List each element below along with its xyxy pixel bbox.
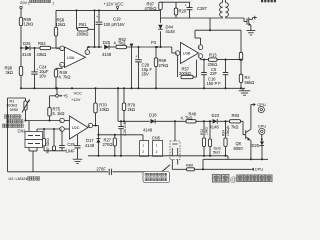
resistor R93 bbox=[227, 113, 241, 129]
svg-text:D25: D25 bbox=[103, 40, 111, 45]
svg-text:+5: +5 bbox=[63, 93, 68, 98]
svg-text:4. 7kΩ: 4. 7kΩ bbox=[114, 41, 126, 46]
resistor R58 bbox=[54, 17, 65, 36]
wire bbox=[8, 98, 26, 172]
svg-text:22F: 22F bbox=[210, 71, 218, 76]
resistor R69 bbox=[154, 47, 168, 88]
resistor R94 bbox=[221, 121, 230, 156]
pin 5 of U3B bbox=[198, 45, 203, 50]
connector CN5 bbox=[140, 135, 163, 157]
svg-text:LM324: LM324 bbox=[16, 176, 29, 181]
ground bbox=[246, 31, 255, 35]
svg-text:10V: 10V bbox=[39, 74, 47, 79]
svg-text:P3: P3 bbox=[151, 40, 157, 45]
wire bbox=[55, 10, 57, 27]
svg-text:2: 2 bbox=[156, 150, 158, 154]
svg-text:+: + bbox=[135, 55, 137, 59]
wire bbox=[196, 120, 212, 122]
svg-text:4148: 4148 bbox=[85, 143, 95, 148]
wire bbox=[113, 171, 150, 173]
wire bbox=[203, 59, 241, 61]
label R20 bbox=[179, 8, 187, 13]
resistor R20 bbox=[174, 2, 177, 18]
label CN1 bbox=[18, 129, 27, 134]
wire bbox=[195, 29, 241, 31]
svg-text:CPU: CPU bbox=[257, 102, 266, 107]
diode D25 bbox=[102, 40, 112, 57]
resistor R80 bbox=[172, 162, 194, 170]
op-amp U3A bbox=[65, 47, 86, 68]
svg-text:R63: R63 bbox=[38, 41, 46, 46]
wire bbox=[76, 10, 78, 29]
svg-text:27kΩ: 27kΩ bbox=[159, 63, 169, 68]
svg-text:10kΩ: 10kΩ bbox=[205, 127, 209, 135]
resistor R48 bbox=[181, 111, 197, 122]
resistor R70 bbox=[94, 88, 109, 125]
svg-text:10kΩ: 10kΩ bbox=[99, 107, 109, 112]
resistor R62 bbox=[114, 37, 127, 49]
svg-text:200kΩ: 200kΩ bbox=[77, 32, 89, 37]
svg-text:3kΩ: 3kΩ bbox=[6, 70, 13, 75]
resistor R63 bbox=[37, 41, 51, 57]
svg-text:U2:: U2: bbox=[9, 176, 15, 181]
connector P1 arrow bbox=[130, 44, 134, 90]
wire bbox=[20, 9, 22, 18]
svg-text:VCC: VCC bbox=[74, 90, 83, 95]
wire bbox=[218, 120, 230, 122]
svg-text:C287: C287 bbox=[197, 6, 208, 11]
wire bbox=[201, 58, 209, 59]
wire bbox=[99, 46, 102, 48]
node +12V VCC rail bbox=[56, 1, 161, 11]
wire bbox=[8, 171, 109, 173]
node VCC rail bbox=[20, 87, 245, 89]
resistor R99 bbox=[19, 17, 33, 26]
resistor R61 bbox=[77, 22, 89, 37]
resistor R3 bbox=[239, 52, 242, 60]
resistor R4 bbox=[239, 74, 254, 85]
wire bbox=[97, 126, 143, 136]
svg-text:R80: R80 bbox=[186, 162, 194, 167]
svg-text:@: @ bbox=[230, 177, 237, 184]
svg-text:12kΩ: 12kΩ bbox=[56, 22, 66, 27]
connector to CPU 2 bbox=[258, 123, 267, 141]
svg-text:R94: R94 bbox=[221, 130, 225, 136]
pin 1 of U3A bbox=[85, 50, 90, 55]
wire bbox=[209, 18, 211, 30]
svg-text:270F: 270F bbox=[97, 167, 107, 172]
svg-text:4148: 4148 bbox=[166, 29, 176, 34]
svg-text:CPU: CPU bbox=[258, 123, 267, 128]
svg-text:100 pF/16V: 100 pF/16V bbox=[104, 22, 125, 27]
svg-text:104F: 104F bbox=[66, 148, 76, 153]
wire bbox=[227, 156, 229, 160]
dashed box gate driver bbox=[170, 121, 180, 159]
capacitor C5 bbox=[201, 67, 217, 89]
wire bbox=[48, 116, 50, 122]
label box gate voltage bbox=[143, 165, 170, 183]
diode D20 bbox=[252, 141, 265, 159]
wire bbox=[20, 26, 22, 50]
svg-text:CN5: CN5 bbox=[152, 136, 161, 141]
svg-text:20V (: 20V ( bbox=[20, 0, 30, 5]
svg-text:5. 1kΩ: 5. 1kΩ bbox=[53, 111, 65, 116]
wire bbox=[109, 46, 116, 48]
wire bbox=[156, 120, 186, 122]
capacitor C26 bbox=[118, 121, 127, 156]
svg-text:12kΩ: 12kΩ bbox=[24, 22, 34, 27]
wire bbox=[203, 60, 205, 73]
pin 10 of U2C bbox=[59, 127, 69, 132]
resistor R-small bbox=[53, 129, 56, 151]
wire bbox=[202, 159, 204, 170]
wire bbox=[161, 17, 223, 19]
svg-text:4148: 4148 bbox=[102, 52, 112, 57]
resistor R75 bbox=[48, 106, 65, 116]
op-amp U3B bbox=[181, 43, 199, 64]
label VCC +12V bbox=[71, 90, 82, 102]
wire bbox=[87, 46, 99, 50]
diode D23 bbox=[210, 113, 220, 129]
pin 8 of U2C bbox=[88, 123, 93, 128]
resistor Du6 bbox=[208, 121, 220, 156]
wire bbox=[30, 47, 40, 49]
wire bbox=[51, 47, 60, 49]
diode D26 bbox=[22, 41, 32, 57]
wire bbox=[240, 83, 242, 89]
transformer T1 bbox=[220, 0, 229, 18]
resistor R13 bbox=[208, 52, 218, 67]
svg-text:R61: R61 bbox=[79, 22, 87, 27]
ground bbox=[73, 159, 83, 163]
wire bbox=[56, 36, 60, 48]
svg-text:D18: D18 bbox=[149, 113, 157, 118]
svg-text:C26 104F: C26 104F bbox=[123, 121, 127, 136]
svg-text:U2C: U2C bbox=[72, 125, 80, 130]
svg-text:C25: C25 bbox=[67, 142, 75, 147]
svg-text:U3A: U3A bbox=[67, 55, 75, 60]
label sensor bbox=[3, 115, 24, 128]
wire bbox=[225, 60, 227, 73]
svg-text:4. 7kΩ: 4. 7kΩ bbox=[59, 75, 71, 80]
svg-text:R93: R93 bbox=[232, 113, 240, 118]
diode D18 bbox=[143, 113, 157, 133]
diode D17 bbox=[85, 135, 100, 156]
wire bbox=[93, 124, 99, 126]
wire bbox=[172, 47, 176, 53]
svg-text:3990: 3990 bbox=[10, 107, 19, 112]
wire bbox=[29, 148, 37, 172]
svg-text:4. 7kΩ: 4. 7kΩ bbox=[181, 116, 193, 121]
svg-text:R32: R32 bbox=[200, 129, 204, 135]
wire bbox=[44, 150, 66, 152]
svg-text:R13: R13 bbox=[209, 52, 217, 57]
capacitor C25 bbox=[59, 131, 75, 153]
svg-text:4148: 4148 bbox=[210, 124, 220, 129]
transistor Q-IGBT bbox=[247, 16, 257, 31]
ground bbox=[239, 88, 251, 95]
wire bbox=[127, 46, 172, 48]
top-right cut text bbox=[261, 0, 276, 2]
wire bbox=[160, 10, 162, 23]
wire bbox=[172, 160, 177, 170]
wire bbox=[50, 96, 56, 108]
diode D44 bbox=[158, 24, 175, 34]
resistor R97 bbox=[145, 2, 163, 12]
thermistor R1 bbox=[6, 98, 30, 113]
wire bbox=[24, 110, 26, 122]
svg-text:+12V VCC: +12V VCC bbox=[104, 1, 124, 6]
wire bbox=[240, 60, 242, 74]
svg-text:4148: 4148 bbox=[143, 128, 153, 133]
wire bbox=[26, 120, 60, 122]
op-amp U2C bbox=[70, 116, 89, 139]
resistor R79 bbox=[122, 88, 135, 121]
svg-text:+: + bbox=[185, 3, 187, 7]
wire bbox=[88, 155, 228, 157]
wire bbox=[241, 121, 246, 134]
pin 9 of U2C bbox=[60, 118, 70, 123]
svg-text:D23: D23 bbox=[212, 113, 220, 118]
resistor R57 loop bbox=[178, 55, 197, 78]
connector from CPU bbox=[251, 166, 263, 171]
svg-text:D20: D20 bbox=[252, 143, 260, 148]
svg-text:+: + bbox=[36, 68, 38, 72]
capacitor C28 bbox=[135, 47, 152, 88]
capacitor C287 bbox=[185, 2, 208, 18]
svg-text:5kΩ: 5kΩ bbox=[213, 150, 220, 155]
wire bbox=[195, 168, 252, 170]
svg-text:+12V: +12V bbox=[71, 97, 81, 102]
svg-text:D26: D26 bbox=[23, 41, 31, 46]
capacitor C24 bbox=[31, 48, 49, 88]
svg-text:270Ω: 270Ω bbox=[103, 142, 113, 147]
svg-text:1: 1 bbox=[142, 144, 144, 148]
watermark bbox=[213, 175, 273, 185]
svg-text:2: 2 bbox=[142, 150, 144, 154]
wire bbox=[117, 87, 150, 122]
caption U2 LM324 bbox=[9, 176, 40, 181]
resistor R27 bbox=[103, 134, 117, 156]
capacitor C16 bbox=[207, 73, 229, 89]
svg-text:R20: R20 bbox=[179, 8, 187, 13]
wire bbox=[160, 31, 162, 47]
svg-text:43kΩ: 43kΩ bbox=[37, 52, 47, 57]
wire bbox=[21, 47, 25, 49]
capacitor C29 bypass bbox=[75, 135, 81, 159]
svg-text:10kΩ: 10kΩ bbox=[226, 128, 230, 136]
pin 6 of U3B bbox=[175, 51, 180, 56]
resistor R49 bbox=[54, 67, 70, 88]
svg-text:2kΩ: 2kΩ bbox=[128, 107, 135, 112]
connector to CPU 1 bbox=[251, 102, 266, 113]
node P3 bbox=[151, 40, 158, 48]
svg-text:150 P F: 150 P F bbox=[207, 81, 222, 86]
svg-text:8050: 8050 bbox=[234, 146, 244, 151]
svg-text:470kΩ: 470kΩ bbox=[145, 6, 157, 11]
svg-text:U3B: U3B bbox=[183, 51, 191, 56]
pin 3 of U3A bbox=[60, 62, 65, 67]
pin 7 of U3B bbox=[198, 54, 203, 59]
capacitor 270F bbox=[97, 167, 112, 175]
pin 2 of U3A bbox=[60, 46, 65, 51]
svg-text:200kΩ: 200kΩ bbox=[179, 71, 191, 76]
wire bbox=[88, 10, 96, 48]
wire bbox=[203, 158, 268, 160]
resistor R32 bbox=[200, 121, 209, 156]
capacitor C19 bbox=[96, 10, 125, 48]
svg-text:25V: 25V bbox=[142, 72, 150, 77]
transistor Q8 bbox=[234, 105, 251, 160]
svg-text:1: 1 bbox=[156, 144, 158, 148]
wire bbox=[37, 128, 60, 130]
resistor R87 bbox=[42, 129, 49, 153]
wire bbox=[240, 30, 242, 52]
wire bbox=[226, 18, 247, 22]
wire bbox=[161, 1, 191, 3]
resistor R98 bbox=[5, 48, 23, 88]
connector +5 bbox=[56, 88, 69, 98]
svg-text:CPU: CPU bbox=[255, 166, 264, 171]
connector CN1 bbox=[25, 121, 43, 148]
wire bbox=[195, 30, 201, 45]
svg-text:56kΩ: 56kΩ bbox=[245, 80, 255, 85]
node 20V voltage-control input bbox=[20, 0, 55, 9]
svg-text:4148: 4148 bbox=[22, 52, 32, 57]
svg-text:C19: C19 bbox=[113, 17, 121, 22]
